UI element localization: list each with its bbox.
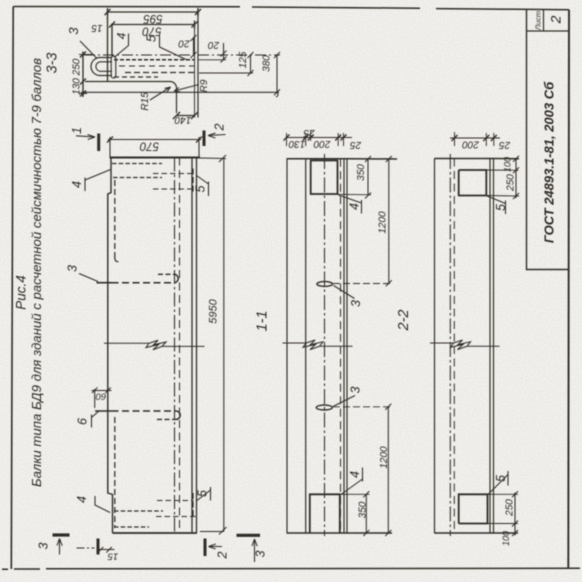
cut mark 1 bottom approach dash-dot bbox=[77, 547, 95, 549]
section 2-2 notch bottom extension bbox=[486, 195, 519, 198]
detail 3-3 dim 20a vertical bbox=[191, 35, 197, 58]
callout 3 bottom leader (section 1-1) bbox=[333, 396, 355, 407]
elevation bottom stirrup dash right a bbox=[157, 500, 194, 502]
detail 3-3 hairpin loop outer bbox=[91, 58, 112, 76]
elevation top edge extension to 5950 dim bbox=[200, 155, 226, 162]
section 2-2 top edge bbox=[434, 158, 519, 160]
cut mark 3 bottom-left thick bar bbox=[53, 533, 70, 536]
callout 3 top leader (section 1-1) bbox=[334, 286, 355, 299]
cut mark 1 top thick bar bbox=[97, 134, 100, 152]
elevation longitudinal rebar dashed bbox=[179, 158, 181, 534]
section 1-1 top oval hole bbox=[317, 282, 333, 287]
cut mark 1 bottom thick bar bbox=[97, 539, 100, 555]
section 1-1 left edge bbox=[286, 159, 288, 533]
elevation bottom anchor mark at edge bbox=[192, 493, 194, 518]
section 1-1 top oval extension bbox=[333, 283, 392, 285]
elevation break lines bbox=[104, 343, 205, 346]
detail 3-3 beam soffit line bbox=[85, 82, 177, 114]
detail 3-3 R15 leader arrow bbox=[150, 87, 171, 100]
callout 5 top flag leader bbox=[197, 176, 209, 197]
section 2-2 bottom edge bbox=[434, 532, 518, 534]
elevation top edge bbox=[110, 157, 201, 159]
elevation left rebar dashed vertical lower bbox=[114, 417, 116, 528]
section 1-1 top dim line bbox=[287, 137, 353, 139]
cut mark 3 bottom-right arrow bbox=[252, 539, 257, 562]
detail 3-3 stirrup bar (vertical stadium) bbox=[111, 56, 116, 78]
section 1-1 dim 350 top bbox=[365, 156, 371, 199]
section 2-2 notch extensions bottom bbox=[488, 494, 519, 523]
detail 3-3 callout 3 leader bbox=[80, 41, 97, 59]
section 1-1 dim 1200 bottom bbox=[385, 404, 391, 536]
section 1-1 dim 1200 top bbox=[386, 156, 392, 286]
section 1-1 break bolt bbox=[303, 340, 323, 350]
detail 3-3 centerline (axis) bbox=[84, 54, 280, 56]
item 3 lower hook solid end bbox=[95, 410, 112, 412]
section 1-1 notch top extension bottom bbox=[340, 493, 370, 495]
detail 3-3 rebar dashed line a bbox=[114, 59, 194, 61]
section 1-1 dim 350 bottom bbox=[363, 491, 369, 536]
detail 3-3 right edge outer bbox=[197, 10, 199, 118]
detail 3-3 rebar dashed line b bbox=[119, 65, 194, 67]
section 1-1 bottom oval hole bbox=[316, 405, 332, 410]
section 1-1 right edge pair bbox=[344, 159, 347, 533]
cut mark 3 bottom-right thick bar bbox=[237, 534, 261, 537]
detail 3-3 dim 140 line bbox=[173, 112, 198, 119]
item 3 upper hook return dashed bbox=[158, 273, 174, 275]
section 2-2 top notch bbox=[459, 170, 487, 196]
callout 5 bottom flag leader (section 2-2) bbox=[489, 471, 509, 494]
detail 3-3 dim 125 line bbox=[248, 52, 254, 76]
detail 3-3 hairpin loop inner bbox=[96, 62, 112, 72]
cut mark 2 top arrow bbox=[208, 133, 226, 138]
item 3 lower hook dashed bar bbox=[112, 410, 177, 412]
item 3 upper hook solid end bbox=[97, 282, 112, 284]
detail 3-3 R9 leader arrow bbox=[174, 85, 199, 92]
section 1-1 bottom edge bbox=[287, 532, 393, 534]
item 3 lower hook return dashed bbox=[157, 418, 176, 420]
section 1-1 web line bbox=[305, 159, 307, 533]
callout 5 top flag leader (section 2-2) bbox=[487, 196, 506, 214]
section 2-2 dim line bottom right bbox=[512, 491, 518, 536]
detail 3-3 beam end inner plate line bbox=[111, 24, 113, 58]
dim 5950 line bbox=[200, 159, 227, 535]
elevation bottom stirrup dash left a bbox=[114, 510, 163, 512]
dim 60 bracket bbox=[92, 387, 112, 409]
item 3 lower hook U-turn bbox=[176, 411, 180, 419]
detail 3-3 dimension line 570 bbox=[112, 21, 195, 30]
section 1-1 break lines bbox=[283, 343, 353, 346]
detail 3-3 left dim chain line bbox=[82, 52, 84, 98]
item 3 upper hook dashed bar bbox=[112, 282, 175, 284]
detail 3-3 callout 5 flag and leader bbox=[160, 36, 187, 60]
section 2-2 bottom notch bbox=[459, 494, 488, 523]
section 2-2 right edge pair bbox=[490, 159, 494, 534]
callout 4 bottom flag leader (section 1-1) bbox=[341, 468, 363, 495]
callout 4 top flag leader (section 1-1) bbox=[339, 195, 362, 214]
elevation top bar dash right b bbox=[153, 188, 194, 190]
section 2-2 notch top extension bbox=[486, 169, 518, 171]
section 1-1 top edge bbox=[287, 158, 398, 160]
detail 3-3 dimension line 595 bbox=[108, 8, 199, 16]
elevation left edge upper (notch zone) bbox=[108, 158, 113, 534]
page frame right border bbox=[567, 10, 570, 568]
elevation break bolt bbox=[146, 340, 166, 350]
detail 3-3 callout 4 flag and leader bbox=[114, 34, 129, 58]
elevation bottom stirrup dash left b bbox=[114, 526, 149, 528]
detail 3-3 extension line y73 bbox=[199, 72, 253, 74]
section 2-2 rebar dashed vertical bbox=[453, 159, 455, 534]
section 1-1 axis centerline bbox=[324, 154, 326, 536]
callout 5 bottom flag leader bbox=[197, 487, 211, 501]
section 2-2 dim line top right bbox=[513, 156, 519, 199]
callout 4 top flag leader bbox=[85, 170, 111, 192]
detail 3-3 dim 380 line bbox=[274, 52, 280, 97]
elevation axis centerline bbox=[174, 158, 176, 534]
detail 3-3 beam end face line (outer) bbox=[107, 10, 109, 82]
elevation right edge outer bbox=[191, 158, 193, 534]
section 1-1 rebar dashed vertical bbox=[340, 159, 342, 533]
callout 3 upper leader bbox=[79, 274, 98, 282]
detail 3-3 dim 20b vertical bbox=[221, 43, 227, 63]
elevation top anchor mark at edge bbox=[192, 169, 194, 195]
title block list-box divider bbox=[527, 10, 569, 31]
section 1-1 notch bottom extension bbox=[338, 193, 372, 196]
elevation top stirrup dash b bbox=[113, 177, 162, 179]
section 2-2 axis centerline bbox=[449, 154, 451, 536]
cut mark 1 top arrow bbox=[76, 135, 95, 140]
item 3 upper hook U-turn bbox=[174, 274, 178, 282]
detail 3-3 ledge line bbox=[81, 91, 279, 93]
detail 3-3 rebar dashed line c bbox=[125, 72, 194, 74]
elevation top stirrup dash a bbox=[112, 163, 162, 165]
callout 4 bottom flag leader bbox=[95, 496, 110, 513]
elevation bottom edge bbox=[113, 532, 198, 534]
section 1-1 bottom notch bbox=[310, 494, 340, 533]
callout 6 lower flag leader bbox=[92, 411, 100, 428]
elevation right edge inner bbox=[196, 158, 198, 534]
cut mark 2 top thick bar bbox=[203, 131, 206, 147]
page frame top border bbox=[13, 7, 569, 10]
detail 3-3 rebar extension line to 20b bbox=[199, 59, 226, 61]
elevation left rebar dashed vertical upper bbox=[115, 180, 119, 262]
section 2-2 top dim line bbox=[450, 137, 500, 139]
elevation top bar dash right a bbox=[153, 173, 194, 175]
dim 15 bottom bbox=[98, 547, 115, 553]
elevation dim 570 line bbox=[108, 137, 201, 157]
section 2-2 left edge bbox=[434, 159, 436, 534]
cut mark 3 bottom-left arrow bbox=[57, 539, 62, 555]
section 1-1 top notch bbox=[310, 160, 338, 194]
section 1-1 top dim ticks bbox=[287, 130, 344, 146]
cut mark 2 bottom arrow bbox=[209, 544, 223, 549]
section 2-2 top dim ticks bbox=[455, 132, 494, 146]
title block outline bbox=[527, 10, 569, 270]
page frame left border bbox=[11, 7, 13, 570]
detail 3-3 right edge inner bbox=[194, 29, 196, 118]
elevation bottom bar dash c bbox=[156, 516, 197, 518]
detail 3-3 rebar dashed line d bbox=[114, 76, 158, 78]
section 1-1 bottom oval extension bbox=[333, 406, 391, 408]
page frame bottom border bbox=[2, 568, 580, 569]
section 2-2 break bolt bbox=[451, 340, 471, 350]
cut mark 2 bottom thick bar bbox=[204, 539, 207, 557]
section 2-2 break lines bbox=[430, 343, 500, 346]
